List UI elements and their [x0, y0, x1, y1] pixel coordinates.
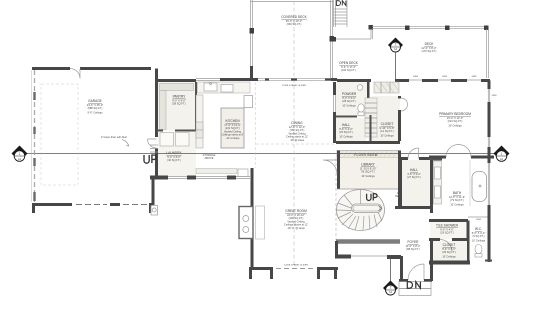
garage south wall: [32, 203, 152, 206]
svg-text:-12' at slope: -12' at slope: [225, 136, 240, 140]
prep sink: [238, 169, 248, 177]
svg-text:GREAT ROOM: GREAT ROOM: [285, 209, 307, 213]
top stair DN: [334, 0, 348, 27]
svg-text:GARAGE: GARAGE: [88, 99, 102, 103]
foyer west wall: [400, 256, 403, 281]
kitchen north counter: [198, 82, 251, 93]
svg-text:BATH: BATH: [453, 191, 462, 195]
svg-text:A4: A4: [500, 157, 504, 161]
garage interior dashed rect: [41, 84, 78, 185]
hall right fill: [402, 160, 430, 207]
garage label: [87, 99, 103, 115]
kitchen sink: [204, 83, 217, 91]
library west edge dashed: [335, 158, 337, 240]
closet label: [380, 122, 395, 137]
pantry shelves: [160, 84, 194, 91]
door arc great room NE: [323, 160, 337, 174]
svg-text:PRIMARY BEDROOM: PRIMARY BEDROOM: [439, 112, 471, 116]
kitchen north wall + windows: [220, 78, 253, 81]
library fill: [337, 158, 399, 190]
NE corner of kitchen: [250, 66, 253, 81]
stair south wall: [336, 239, 400, 244]
washer dryer: [160, 133, 174, 147]
closet bottom walls: [429, 238, 468, 241]
kitchen island: [221, 108, 244, 148]
kitchen south window band: [196, 177, 227, 179]
right section marker: [494, 146, 510, 162]
powder east wall: [367, 82, 370, 117]
svg-text:10' Ceilings: 10' Ceilings: [361, 174, 375, 178]
deck east edge: [487, 29, 489, 78]
svg-text:12068 4 PANEL SLIDER: 12068 4 PANEL SLIDER: [284, 264, 308, 267]
svg-text:(28 SQ.FT.): (28 SQ.FT.): [342, 99, 356, 103]
bath label: [449, 191, 465, 206]
svg-text:TILE SHOWER: TILE SHOWER: [436, 224, 459, 228]
svg-text:-16' @ slope: -16' @ slope: [290, 138, 305, 142]
svg-text:2868: 2868: [442, 76, 448, 78]
garage east wall: [155, 69, 158, 177]
garage west wall (dashed foundation): [34, 70, 36, 202]
bedroom double door arcs south: [446, 145, 471, 158]
svg-text:9'-6" Ceilings: 9'-6" Ceilings: [87, 111, 103, 115]
svg-text:CLOSET: CLOSET: [443, 243, 456, 247]
svg-text:OPEN DECK: OPEN DECK: [339, 61, 359, 65]
hall east wall / bath west wall: [430, 160, 433, 281]
pantry north wall: [157, 79, 197, 82]
svg-text:(224 SQ.FT.): (224 SQ.FT.): [448, 119, 463, 123]
svg-text:1: 1: [501, 152, 503, 156]
svg-text:(12 SQ.FT.): (12 SQ.FT.): [380, 129, 394, 133]
dining label: [286, 121, 308, 142]
covered deck top edge: [250, 1, 333, 3]
foyer label: [406, 240, 421, 251]
fridge: [244, 96, 253, 108]
great room east wall lower: [335, 241, 338, 257]
hall left fill: [336, 118, 366, 141]
powder toilet: [358, 104, 364, 112]
svg-text:(360 SQ.FT.): (360 SQ.FT.): [287, 22, 302, 26]
svg-text:2868: 2868: [413, 76, 419, 78]
svg-text:PANTRY: PANTRY: [173, 95, 187, 99]
svg-text:2868: 2868: [472, 76, 478, 78]
section cut line: [27, 153, 494, 155]
svg-text:10' Ceilings: 10' Ceilings: [342, 103, 356, 107]
deck top edge: [372, 27, 488, 29]
top section marker: [388, 38, 403, 53]
svg-text:95 (SQ.FT.): 95 (SQ.FT.): [361, 170, 375, 174]
svg-text:2060: 2060: [476, 219, 482, 221]
pantry room fill: [158, 82, 196, 131]
flush beam band: [337, 151, 399, 158]
svg-text:HALL: HALL: [410, 168, 418, 172]
svg-text:10' Ceilings: 10' Ceilings: [380, 133, 394, 137]
svg-text:COVERED DECK: COVERED DECK: [281, 15, 307, 19]
left section marker: [12, 146, 28, 162]
kitchen south counter: [196, 169, 237, 174]
deck step edge: [332, 37, 337, 42]
kitchen label: [222, 119, 244, 140]
covered deck east edge: [331, 0, 333, 78]
garage UP steps: [150, 145, 158, 152]
svg-text:CLOSET: CLOSET: [381, 122, 394, 126]
hall/closet south wall: [336, 141, 400, 144]
svg-text:10' Ceilings: 10' Ceilings: [339, 134, 353, 138]
svg-text:A4: A4: [18, 157, 22, 161]
svg-text:KITCHEN: KITCHEN: [226, 119, 241, 123]
svg-text:12068 4 PANEL SLIDER: 12068 4 PANEL SLIDER: [282, 84, 306, 87]
powder label: [342, 92, 357, 107]
closet wall west: [370, 115, 372, 141]
powder sink: [357, 85, 363, 91]
wc walls: [468, 205, 489, 262]
great room south wall: [249, 267, 338, 270]
DN steps box: [399, 282, 431, 289]
dining east wall: [333, 82, 336, 143]
spiral stair: [337, 190, 385, 231]
powder south wall: [336, 116, 380, 117]
bedroom east wall: [488, 81, 491, 164]
bottom section marker: [383, 281, 398, 296]
utility box: [151, 206, 158, 216]
svg-text:(58 SQ.FT.): (58 SQ.FT.): [172, 102, 186, 106]
bedroom double door arcs: [401, 98, 408, 111]
bath east windows: [488, 163, 489, 205]
svg-text:(40 SQ.FT.): (40 SQ.FT.): [167, 158, 181, 162]
svg-text:LIBRARY: LIBRARY: [361, 163, 375, 167]
svg-text:(176 SQ.FT.): (176 SQ.FT.): [422, 49, 437, 53]
svg-text:(162 SQ.FT.): (162 SQ.FT.): [341, 68, 356, 72]
UP text garage: [144, 155, 156, 163]
svg-text:10' Ceilings: 10' Ceilings: [448, 123, 462, 127]
svg-text:DINING: DINING: [291, 121, 303, 125]
garage door openings (dashed): [76, 204, 147, 206]
bedroom north wall: [395, 79, 467, 82]
great room west wall: [251, 168, 254, 267]
svg-text:(29 SQ.FT.): (29 SQ.FT.): [440, 231, 454, 235]
laundry room fill: [158, 132, 196, 176]
closet east wall: [398, 96, 401, 141]
svg-text:10' Ceilings: 10' Ceilings: [442, 254, 456, 258]
svg-text:2: 2: [390, 286, 392, 290]
svg-text:2868: 2868: [492, 95, 498, 97]
vanity: [434, 161, 442, 204]
garage west wall solid piers: [33, 92, 35, 201]
svg-text:HALL: HALL: [342, 123, 350, 127]
svg-text:10' Ceilings: 10' Ceilings: [450, 202, 464, 206]
garage corner stubs: [34, 205, 151, 214]
library floor edge: [337, 188, 399, 190]
great room label: [284, 209, 309, 230]
svg-text:(5 SQ.FT.): (5 SQ.FT.): [473, 234, 485, 238]
svg-text:A4: A4: [394, 47, 398, 51]
pantry label: [172, 95, 186, 106]
svg-text:LAUNDRY: LAUNDRY: [166, 151, 182, 155]
hall right north wall: [400, 157, 431, 160]
garage north wall: [32, 67, 151, 70]
library east wall: [398, 157, 401, 207]
wc toilet: [475, 245, 482, 254]
svg-text:ABOVE: ABOVE: [205, 156, 214, 160]
svg-text:(88 SQ.FT.): (88 SQ.FT.): [406, 247, 420, 251]
wall pieces around powder: [337, 79, 371, 82]
svg-text:(588 SQ.FT.): (588 SQ.FT.): [88, 106, 103, 110]
bathtub: [472, 172, 487, 202]
svg-text:2' lower than sub-floor: 2' lower than sub-floor: [101, 135, 127, 139]
garage/mud door arc: [148, 139, 157, 148]
entry door: [408, 264, 424, 280]
closet top fill: [371, 96, 400, 141]
svg-text:-20'-6" @ slope: -20'-6" @ slope: [287, 226, 305, 230]
open deck steps hatched: [374, 82, 399, 93]
svg-text:POWDER: POWDER: [342, 92, 357, 96]
svg-text:(27 SQ.FT.): (27 SQ.FT.): [407, 175, 421, 179]
kitchen west counter: [196, 95, 203, 148]
tile shower walls: [429, 219, 468, 222]
cooktop: [221, 85, 233, 93]
closet bottom fill: [433, 241, 467, 261]
fireplace bumpout: [239, 207, 253, 239]
powder fill: [336, 82, 367, 117]
svg-text:10' Ceilings: 10' Ceilings: [472, 238, 486, 242]
ridge dashed line: [293, 1, 295, 266]
closet shelf steps: [365, 98, 377, 137]
bedroom south wall: [429, 156, 494, 159]
covered deck west edge: [251, 0, 253, 78]
garage east wall lower: [152, 177, 155, 205]
main north wall with sliders (kitchen/dining): [250, 78, 337, 81]
great room ceiling break dashed: [256, 143, 336, 145]
shower glass: [468, 216, 488, 218]
svg-text:(25 SQ.FT.): (25 SQ.FT.): [339, 130, 353, 134]
garage man-door arc: [70, 69, 80, 79]
svg-text:2: 2: [395, 43, 397, 47]
svg-text:FOYER: FOYER: [408, 240, 420, 244]
deck label: [422, 42, 437, 53]
hall west wall: [399, 158, 402, 207]
svg-text:A4: A4: [389, 290, 393, 294]
foyer north wall: [395, 206, 431, 209]
open deck label: [339, 61, 359, 72]
laundry south wall: [150, 176, 196, 180]
pantry east wall: [195, 82, 197, 130]
primary bedroom label: [439, 112, 471, 127]
svg-text:1: 1: [19, 152, 21, 156]
svg-text:(79 SQ.FT.): (79 SQ.FT.): [450, 198, 464, 202]
pantry south wall: [157, 130, 196, 132]
covered deck label: [281, 15, 307, 26]
svg-text:DECK: DECK: [425, 42, 435, 46]
front wall west of foyer: [335, 255, 351, 259]
laundry label: [166, 151, 182, 162]
svg-text:W.C.: W.C.: [475, 227, 482, 231]
svg-text:(39 SQ.FT.): (39 SQ.FT.): [442, 250, 456, 254]
